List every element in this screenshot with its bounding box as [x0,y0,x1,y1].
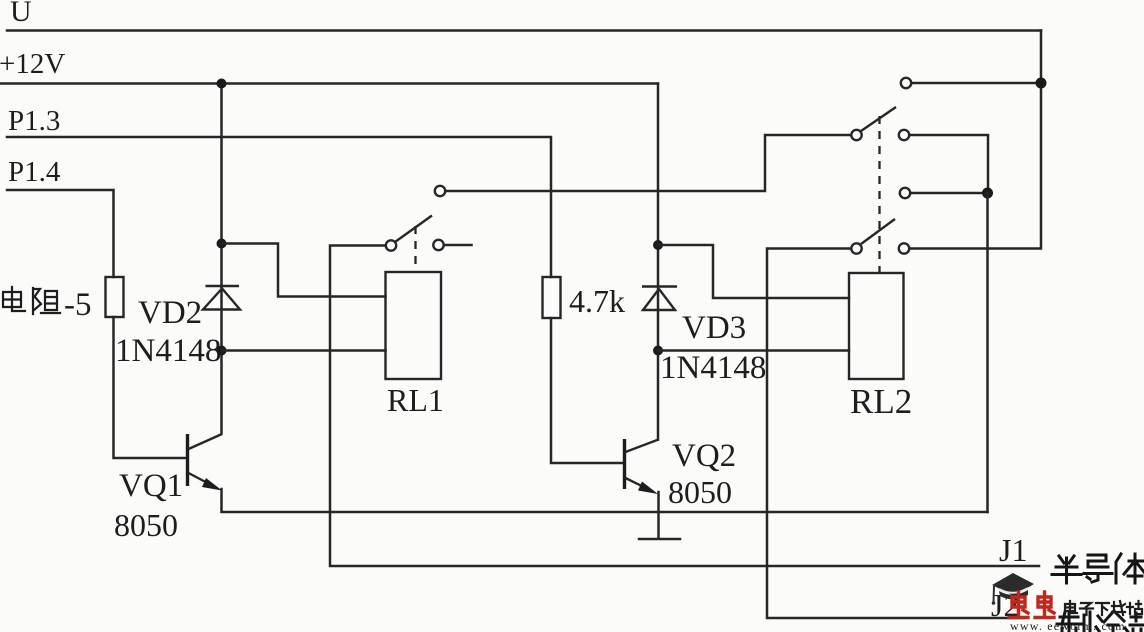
relay RL2 coil box [849,273,904,379]
svg-text:1N4148: 1N4148 [115,333,221,369]
svg-text:P1.4: P1.4 [8,156,61,188]
wire RL1 common down to J1 line [330,246,1039,567]
glyph 电 [3,287,25,311]
wire RL2 lower common down to J2 line [767,249,1024,619]
relay RL2 upper switch arm [861,107,896,131]
wire +12V rail [0,82,658,85]
relay RL2 lower switch arm [861,219,895,244]
svg-text:8050: 8050 [114,507,178,543]
junction U drop [1036,78,1047,89]
glyph 电 [1065,601,1077,613]
svg-text:P1.3: P1.3 [8,105,60,137]
transistor VQ1 [188,434,223,491]
relay RL2 lower NO contact [900,188,910,198]
svg-text:4.7k: 4.7k [569,283,625,319]
glyph 虫 #1 [1009,592,1028,618]
relay RL2 dashed actuator link [878,116,880,272]
relay RL1 dashed actuator link [414,226,416,271]
VQ1 base bar [186,434,189,486]
glyph 子 [1080,603,1093,615]
wire U rail right drop to RL2 contact [910,31,1041,249]
VQ1 collector diagonal [189,434,223,449]
wire riser x=987 [986,193,989,512]
svg-text:8050: 8050 [668,474,732,510]
VQ2 collector diagonal [626,440,659,453]
relay RL2 upper NC contact [899,130,909,140]
glyph 冷 partial [1096,612,1128,632]
relay RL2 upper common contact [851,130,861,140]
relay RL2 upper NO contact [901,78,911,88]
ground [639,538,680,541]
glyph 虫 #2 [1035,592,1054,618]
watermark 虫虫 red [1009,592,1054,618]
glyph 站 [1127,601,1142,614]
watermark 电子下载站 black [1065,601,1142,615]
wire RL2 coil bottom [658,349,849,352]
relay RL1 common contact [386,240,396,250]
wire VQ1 emitter to x=987 riser [222,489,988,512]
watermark graduation cap [992,573,1034,605]
wire node to RL1 coil top [222,244,386,297]
relay RL1 NC contact [433,240,443,250]
wire RL1 NO to RL2 upper common [446,135,852,191]
wire RL2 coil top [658,245,849,298]
wire RL2 upper NO to U drop [912,82,1036,85]
junction +12V/RL2 coil top [653,240,663,250]
wire RL1 coil bottom [222,349,386,352]
resistor R1 (电阻-5) [106,277,124,317]
glyph third partial [1130,613,1143,632]
junction VD2 anode / VQ1 collector / RL1 coil bottom [217,346,227,356]
svg-text:VQ2: VQ2 [672,438,736,474]
VQ1 emitter diagonal with arrow [189,473,218,488]
svg-text:RL2: RL2 [850,382,912,421]
svg-text:-5: -5 [64,287,92,323]
node 半导体 label [1052,554,1144,583]
wire RL2 lower NO to junction [911,192,983,195]
junction emitter riser top [982,188,993,199]
wire U rail [7,29,1041,32]
VQ2 base bar [623,439,626,489]
wire P1.3 rail [7,137,551,277]
wire +12V junction drop at x=221 [220,84,223,287]
svg-text:RL1: RL1 [387,382,444,418]
junction VD2 cathode node [217,239,227,249]
glyph 载 [1112,601,1125,615]
resistor R1 label 电阻 -5 [3,287,60,314]
wire P1.4 rail [7,190,114,277]
glyph 体 [1116,554,1144,583]
transistor VQ2 [625,439,659,494]
VQ2 emitter diagonal with arrow [626,478,653,491]
svg-text:U: U [10,0,32,28]
diode VD2 [203,286,240,434]
relay RL1 NO contact [435,186,445,196]
glyph 下 [1096,603,1109,615]
svg-text:J1: J1 [999,532,1027,568]
wire RL2 upper NC to riser [910,135,988,193]
wire 4.7k bottom to VQ2 base [551,318,623,463]
svg-text:+12V: +12V [0,48,65,80]
svg-text:VQ1: VQ1 [119,468,183,504]
relay RL1 coil box [386,272,442,379]
diode VD3 [642,287,677,440]
svg-text:1N4148: 1N4148 [660,350,766,386]
relay RL1 switch arm [395,216,432,243]
svg-text:www. eeworm. com: www. eeworm. com [1010,619,1126,632]
junction VD3 anode / VQ2 collector / RL2 coil bottom [653,346,663,356]
glyph 制 partial [1057,612,1090,632]
glyph 半 [1052,556,1081,583]
wire RL1 NC stub [445,244,472,247]
wire VQ2 emitter to ground [657,492,660,538]
relay RL2 lower NC contact [899,243,909,253]
node 制冷 label (cut off) [1057,612,1143,632]
svg-text:VD3: VD3 [682,310,746,346]
wire R1 bottom to VQ1 base [114,317,187,458]
glyph 阻 [33,288,60,314]
glyph 导 [1084,555,1112,582]
junction +12V/VD2 [217,79,227,89]
relay RL2 lower common contact [851,243,861,253]
svg-text:VD2: VD2 [138,295,202,331]
wire 4.7k resistor top from P1.3 [543,277,561,318]
wire +12V drop at x=658 [657,84,660,287]
